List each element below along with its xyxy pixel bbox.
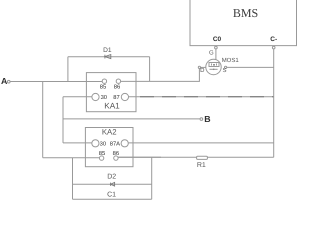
KA1 pin 87 circle: [121, 93, 128, 100]
relay KA1 box: [86, 73, 136, 112]
svg-text:87A: 87A: [110, 140, 120, 147]
transistor MOS1 body circle: [206, 59, 221, 74]
wire KA2-86 darker segment: [118, 156, 161, 158]
diode D1 loop left vertical: [67, 57, 69, 82]
D2/C1 loop left vertical: [72, 158, 74, 200]
wire B horizontal: [63, 118, 200, 120]
transistor MOS1 channel dot: [213, 69, 215, 71]
diode D1 loop right vertical: [149, 57, 151, 82]
diode D1 symbol: [105, 55, 111, 59]
svg-text:85: 85: [100, 83, 106, 90]
wire A horizontal: [10, 81, 102, 83]
svg-text:S: S: [222, 67, 226, 74]
terminal B circle: [200, 118, 203, 121]
svg-text:C1: C1: [107, 191, 116, 198]
D2/C1 loop right vertical: [151, 157, 153, 199]
wire vertical KA1-30 to KA2-30: [62, 97, 64, 143]
svg-text:86: 86: [114, 83, 120, 90]
KA2 pin 85 circle: [99, 156, 103, 160]
transistor MOS1 channel bar: [210, 68, 218, 70]
KA2 pin 87A circle: [121, 140, 128, 147]
terminal C0 circle: [215, 46, 218, 49]
svg-text:D1: D1: [103, 47, 112, 54]
wire KA2-86 through R1: [118, 156, 274, 158]
svg-text:87: 87: [113, 94, 119, 101]
MOS1 drain terminal circle: [198, 66, 200, 68]
wire KA1-86 to MOS1 drain: [121, 69, 200, 82]
MOS1 source terminal circle: [225, 66, 227, 68]
diode D2 symbol: [111, 182, 115, 186]
wire KA1-87 darker dashed overlay: [140, 96, 274, 98]
svg-text:BMS: BMS: [233, 6, 258, 20]
terminal C- circle: [272, 46, 275, 49]
svg-text:G: G: [209, 50, 214, 57]
KA1 pin 85 circle: [102, 79, 106, 83]
wire gate vertical from C0: [215, 49, 217, 60]
KA2 pin 86 circle: [114, 156, 118, 160]
wire MOS1 drain stub: [200, 66, 206, 68]
transistor MOS1 gate dot: [213, 65, 214, 66]
wire KA1-30 horizontal: [63, 96, 92, 98]
relay KA2 box: [85, 128, 133, 167]
svg-text:KA2: KA2: [102, 128, 117, 137]
svg-text:MOS1: MOS1: [222, 57, 240, 64]
wire vertical from A down to KA2-85 row: [42, 82, 44, 158]
wire KA2-85 horizontal: [43, 157, 100, 159]
transistor MOS1 internal gate rect: [209, 63, 219, 67]
svg-text:C-: C-: [270, 36, 277, 43]
resistor R1 body: [197, 156, 208, 159]
diode D2 wire: [73, 183, 152, 185]
svg-text:C0: C0: [213, 36, 222, 43]
svg-text:A: A: [1, 76, 8, 86]
wire C- vertical: [273, 49, 275, 158]
svg-text:B: B: [204, 114, 210, 124]
svg-text:R1: R1: [197, 162, 206, 169]
svg-text:30: 30: [101, 94, 107, 101]
svg-text:KA1: KA1: [104, 102, 120, 111]
capacitor C1 wire: [73, 198, 152, 200]
svg-text:30: 30: [100, 140, 106, 147]
wire MOS1 source to C- line: [227, 66, 274, 68]
KA1 pin 30 circle: [92, 93, 99, 100]
BMS box: [190, 0, 297, 46]
svg-text:86: 86: [113, 150, 119, 157]
terminal A circle: [7, 80, 10, 83]
wire KA1-87 to C- line: [129, 96, 274, 98]
KA2 pin 30 circle: [92, 140, 99, 147]
svg-text:85: 85: [99, 150, 105, 157]
svg-text:D: D: [200, 67, 205, 74]
transistor MOS1 internal marks: [212, 64, 217, 66]
wire KA2-30 horizontal: [63, 142, 92, 144]
svg-text:D2: D2: [107, 174, 116, 181]
KA1 pin 86 circle: [116, 79, 120, 83]
diode D1 top wire: [68, 56, 150, 58]
wire KA2-87A to C- line: [128, 142, 273, 144]
